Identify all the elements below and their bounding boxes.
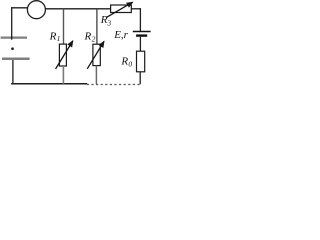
wire R2 branch lower vertical — [95, 66, 97, 85]
label R3 — [100, 14, 112, 27]
rheostat R1 arrow — [56, 41, 73, 69]
wire R1 branch lower vertical — [62, 66, 64, 84]
rheostat R2 body — [93, 44, 100, 65]
wire right lower vertical — [139, 72, 141, 84]
capacitor upper plate (gray) — [1, 36, 27, 38]
svg-text:R: R — [49, 30, 57, 42]
label R0 — [120, 56, 132, 69]
wire right middle vertical — [139, 37, 141, 52]
rheostat R2 arrow — [87, 41, 104, 68]
svg-text:R: R — [120, 56, 128, 68]
rheostat R1 body — [59, 44, 66, 66]
svg-text:R: R — [84, 30, 92, 42]
wire left upper vertical — [11, 7, 13, 40]
battery E,r long plate — [133, 31, 151, 33]
battery E,r short plate — [136, 34, 147, 36]
label R1 — [49, 30, 61, 43]
wire top-left horizontal segment — [11, 7, 28, 9]
wire R1 branch upper vertical — [63, 9, 65, 45]
svg-text:3: 3 — [106, 18, 111, 27]
contact dot between plates — [11, 47, 14, 50]
resistor R0 body — [137, 51, 145, 72]
wire top-right segment — [131, 8, 141, 10]
wire top-middle segment — [45, 8, 111, 10]
wire bottom solid segment — [11, 83, 87, 85]
rheostat R3 body — [111, 5, 132, 13]
wire left lower vertical — [12, 60, 14, 85]
svg-text:1: 1 — [57, 34, 61, 43]
svg-text:E,r: E,r — [113, 29, 128, 41]
capacitor lower plate (gray) — [2, 57, 30, 60]
svg-text:2: 2 — [92, 34, 96, 43]
meter (empty circle symbol) on top wire — [27, 1, 45, 19]
label R2 — [84, 30, 96, 43]
svg-text:0: 0 — [128, 60, 132, 69]
wire R2 branch upper vertical — [96, 9, 98, 45]
rheostat R3 arrow — [106, 2, 132, 17]
wire bottom-right dashed segment — [87, 84, 140, 86]
wire right upper vertical — [139, 8, 141, 31]
